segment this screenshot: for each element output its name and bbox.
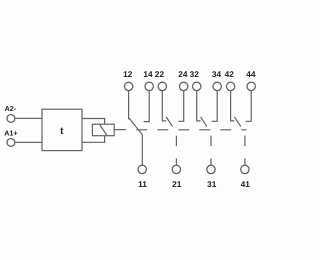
terminal 31: [207, 165, 215, 173]
svg-text:42: 42: [225, 69, 235, 79]
wire NO contact 24 with seat: [178, 91, 184, 122]
wire common 31 lower: [210, 158, 212, 165]
wire A1 to timer box: [15, 141, 42, 143]
wire NC contact 32 with seat: [197, 91, 201, 121]
mechanical linkage (dashed): [136, 129, 246, 131]
wire NC contact 12: [128, 91, 130, 120]
svg-text:32: 32: [190, 69, 200, 79]
contact blade pole 2: [166, 117, 172, 127]
terminal 44: [247, 82, 255, 90]
svg-text:41: 41: [241, 179, 251, 189]
svg-text:31: 31: [207, 179, 217, 189]
wire NO contact 44 with seat: [246, 91, 252, 122]
terminal 14: [145, 82, 153, 90]
contact blade pole 3: [201, 117, 207, 127]
wire NC contact 22 with seat: [162, 91, 166, 121]
contact blade pole 4: [235, 117, 241, 127]
wire common 21 upper: [175, 136, 177, 147]
terminal A2: [7, 115, 15, 123]
svg-text:14: 14: [143, 69, 153, 79]
wire NO contact 14 with seat: [144, 91, 150, 122]
wire common 11: [141, 135, 143, 165]
wire common 31 upper: [210, 136, 212, 147]
svg-text:24: 24: [178, 69, 188, 79]
wire NC contact 42 with seat: [231, 91, 235, 121]
timer block U1: [42, 109, 82, 150]
svg-text:22: 22: [155, 69, 165, 79]
terminal 24: [180, 82, 188, 90]
svg-text:44: 44: [246, 69, 256, 79]
wire common 41 upper: [244, 136, 246, 147]
svg-text:A1+: A1+: [4, 129, 17, 138]
terminal 22: [158, 82, 166, 90]
relay coil K1: [92, 124, 114, 136]
terminal 34: [213, 82, 221, 90]
wire common 41 lower: [244, 158, 246, 165]
svg-text:11: 11: [138, 179, 147, 189]
terminal 41: [241, 165, 249, 173]
wire coil output: [114, 129, 126, 131]
terminal 32: [193, 82, 201, 90]
contact blade pole 1: [129, 118, 143, 135]
terminal 12: [124, 82, 132, 90]
terminal 21: [172, 165, 180, 173]
wire A2 to timer box: [15, 117, 42, 119]
svg-text:A2-: A2-: [5, 104, 17, 113]
wire NO contact 34 with seat: [212, 91, 218, 122]
svg-text:34: 34: [212, 69, 222, 79]
svg-text:12: 12: [123, 69, 133, 79]
terminal 11: [138, 165, 146, 173]
terminal 42: [226, 82, 234, 90]
svg-text:21: 21: [172, 179, 182, 189]
terminal A1: [7, 139, 15, 147]
wire timer box to coil (lower): [82, 136, 105, 143]
wire common 21 lower: [175, 158, 177, 165]
wire timer box to coil (upper): [82, 119, 105, 125]
